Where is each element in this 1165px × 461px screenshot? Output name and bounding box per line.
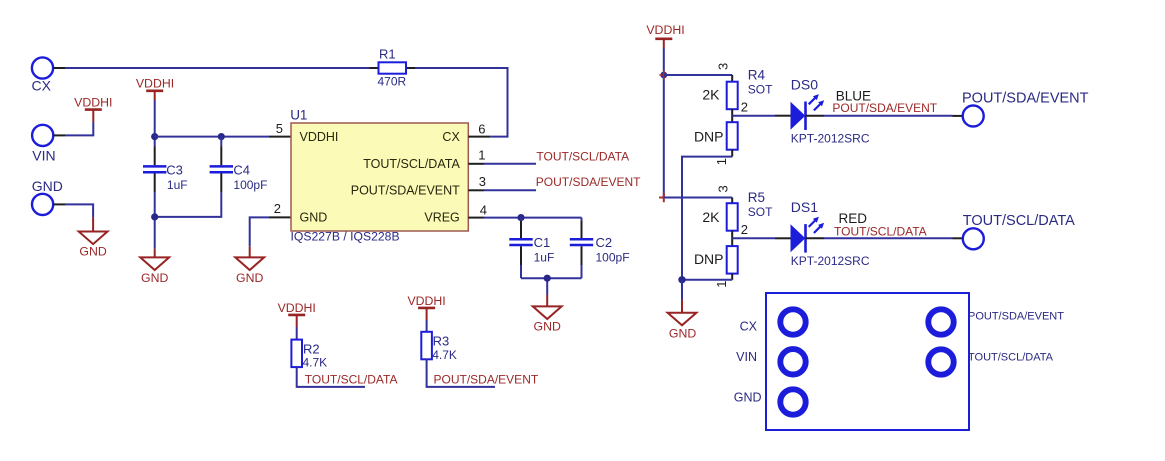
capacitor C4 [155,137,268,217]
svg-text:4.7K: 4.7K [432,348,457,362]
ground (right) [668,313,697,341]
resistor R4 (2K / DNP) [694,63,773,165]
svg-text:VDDHI: VDDHI [136,77,174,91]
wire pin5 rail [155,136,291,138]
wire R4 to DS0 [732,115,790,117]
svg-text:POUT/SDA/EVENT: POUT/SDA/EVENT [832,101,937,115]
connector block J1 [766,293,969,430]
svg-text:470R: 470R [378,75,407,89]
svg-text:CX: CX [442,130,460,144]
svg-text:GND: GND [669,326,696,340]
svg-text:GND: GND [79,244,106,258]
connector CX [32,57,54,93]
wire VIN to VDDHI [53,122,93,135]
wire R2 to net [297,367,365,387]
connector GND [32,178,63,215]
svg-text:DS0: DS0 [791,76,818,92]
wire R5 bottom to ground node [682,279,732,281]
svg-text:100pF: 100pF [596,251,630,265]
svg-text:C3: C3 [166,162,183,177]
node VDDHI/pin5 junction [151,133,158,140]
node rail-R4 junction [659,71,668,80]
wire rail to R4 [664,74,732,76]
connector POUT/SDA/EVENT [962,90,1089,126]
svg-text:C2: C2 [596,235,613,250]
ground (C3) [140,257,169,285]
svg-text:TOUT/SCL/DATA: TOUT/SCL/DATA [968,352,1054,364]
wire rail to R5 [664,197,732,199]
node C4 top junction [218,133,225,140]
svg-text:POUT/SDA/EVENT: POUT/SDA/EVENT [351,184,460,198]
svg-text:DS1: DS1 [791,199,818,215]
svg-text:C4: C4 [233,162,250,177]
svg-text:KPT-2012SRC: KPT-2012SRC [791,131,870,145]
connector TOUT/SCL/DATA [963,213,1075,249]
power port VDDHI (R2) [278,301,316,327]
power port VDDHI (C3 rail) [136,77,174,100]
svg-text:1uF: 1uF [167,178,188,192]
svg-text:IQS227B / IQS228B: IQS227B / IQS228B [291,229,400,243]
svg-text:VDDHI: VDDHI [74,96,112,110]
svg-text:POUT/SDA/EVENT: POUT/SDA/EVENT [968,311,1064,323]
pad VIN [780,349,805,374]
svg-text:VREG: VREG [424,210,459,224]
wire DS1 to connector [806,237,963,239]
svg-text:6: 6 [478,121,485,136]
node LED ground junction [678,276,685,283]
connector VIN [32,125,56,164]
svg-text:1: 1 [714,158,729,165]
svg-text:U1: U1 [290,107,307,122]
wire CX to R1 [53,67,369,69]
svg-text:3: 3 [716,185,731,192]
svg-text:C1: C1 [534,235,551,250]
wire VDDHI rail to C3 [154,100,156,257]
svg-text:2: 2 [274,201,281,216]
svg-text:CX: CX [32,78,52,94]
wire C1 C2 bottom [521,278,582,306]
svg-text:1: 1 [714,280,729,287]
svg-text:TOUT/SCL/DATA: TOUT/SCL/DATA [536,150,629,164]
wire R5 to DS1 [732,237,790,239]
svg-text:POUT/SDA/EVENT: POUT/SDA/EVENT [536,175,641,189]
svg-text:2: 2 [741,100,748,115]
op-amp U1 IQS227B [290,107,468,243]
svg-text:VIN: VIN [736,350,757,364]
wire GND connector to ground [53,204,93,231]
svg-text:1: 1 [478,148,485,163]
ground (U1 GND pin) [235,257,264,285]
capacitor C2 [570,218,630,279]
resistor R2 [291,327,327,370]
svg-text:R2: R2 [303,341,320,356]
resistor R3 [421,320,457,362]
svg-text:GND: GND [300,210,328,224]
wire pin4 VREG [468,217,581,219]
svg-text:GND: GND [734,391,762,405]
svg-text:R3: R3 [433,334,450,349]
svg-text:POUT/SDA/EVENT: POUT/SDA/EVENT [434,373,539,387]
svg-text:3: 3 [479,174,486,189]
svg-text:TOUT/SCL/DATA: TOUT/SCL/DATA [363,157,460,171]
node rail-R5 junction [659,193,668,202]
pin 6 stub [468,136,490,138]
svg-text:2K: 2K [702,209,720,225]
svg-text:R1: R1 [379,46,396,61]
svg-text:SOT: SOT [748,82,773,96]
svg-text:VDDHI: VDDHI [407,294,445,308]
capacitor C3 [143,162,188,192]
svg-text:100pF: 100pF [233,178,267,192]
svg-text:R5: R5 [748,190,765,205]
svg-text:KPT-2012SRC: KPT-2012SRC [791,254,870,268]
svg-text:2K: 2K [702,86,720,102]
svg-text:GND: GND [236,271,263,285]
node C3 bottom junction [151,213,158,220]
svg-text:TOUT/SCL/DATA: TOUT/SCL/DATA [834,225,927,239]
svg-text:GND: GND [534,319,561,333]
svg-text:1uF: 1uF [534,251,555,265]
resistor R1 [370,46,416,88]
node C1C2 ground junction [544,275,551,282]
power port VDDHI (R3) [407,294,445,320]
svg-text:5: 5 [276,121,283,136]
svg-text:VDDHI: VDDHI [300,130,339,144]
svg-text:4.7K: 4.7K [303,356,328,370]
capacitor C1 [509,218,554,279]
wire pin3 POUT [468,189,536,191]
power port VDDHI (right rail) [646,23,684,48]
pad TOUT [928,349,953,374]
wire R4 bottom return [682,157,732,280]
pad POUT [928,309,953,334]
svg-text:VDDHI: VDDHI [278,301,316,315]
power port VDDHI (at VIN) [74,96,112,122]
svg-text:3: 3 [716,63,731,70]
svg-text:POUT/SDA/EVENT: POUT/SDA/EVENT [962,90,1089,106]
wire pin1 TOUT [468,163,536,165]
svg-text:R4: R4 [748,68,766,83]
pad GND [780,389,805,414]
wire DS0 to connector [806,115,963,117]
pad CX [780,309,805,334]
svg-text:4: 4 [480,202,487,217]
ground (C1 C2) [533,306,562,333]
wire R3 to net [427,359,495,387]
wire R1 to U1 pin6 [415,68,508,137]
svg-text:TOUT/SCL/DATA: TOUT/SCL/DATA [963,213,1075,229]
resistor R5 (2K / DNP) [694,185,773,287]
svg-text:VDDHI: VDDHI [646,23,684,37]
svg-text:DNP: DNP [694,251,724,267]
svg-text:SOT: SOT [748,205,773,219]
svg-text:VIN: VIN [32,148,55,164]
node VREG junction [517,214,524,221]
wire VDDHI rail right [663,48,665,198]
svg-text:DNP: DNP [694,128,724,144]
wire junction to ground [681,280,683,313]
LED DS0 [791,76,870,145]
svg-text:GND: GND [141,271,168,285]
svg-text:GND: GND [32,178,63,194]
svg-text:TOUT/SCL/DATA: TOUT/SCL/DATA [305,373,398,387]
ground (left) [79,232,108,259]
svg-text:CX: CX [740,320,758,334]
LED DS1 [791,199,870,268]
svg-text:2: 2 [741,222,748,237]
wire U1 pin2 to ground [250,217,291,257]
